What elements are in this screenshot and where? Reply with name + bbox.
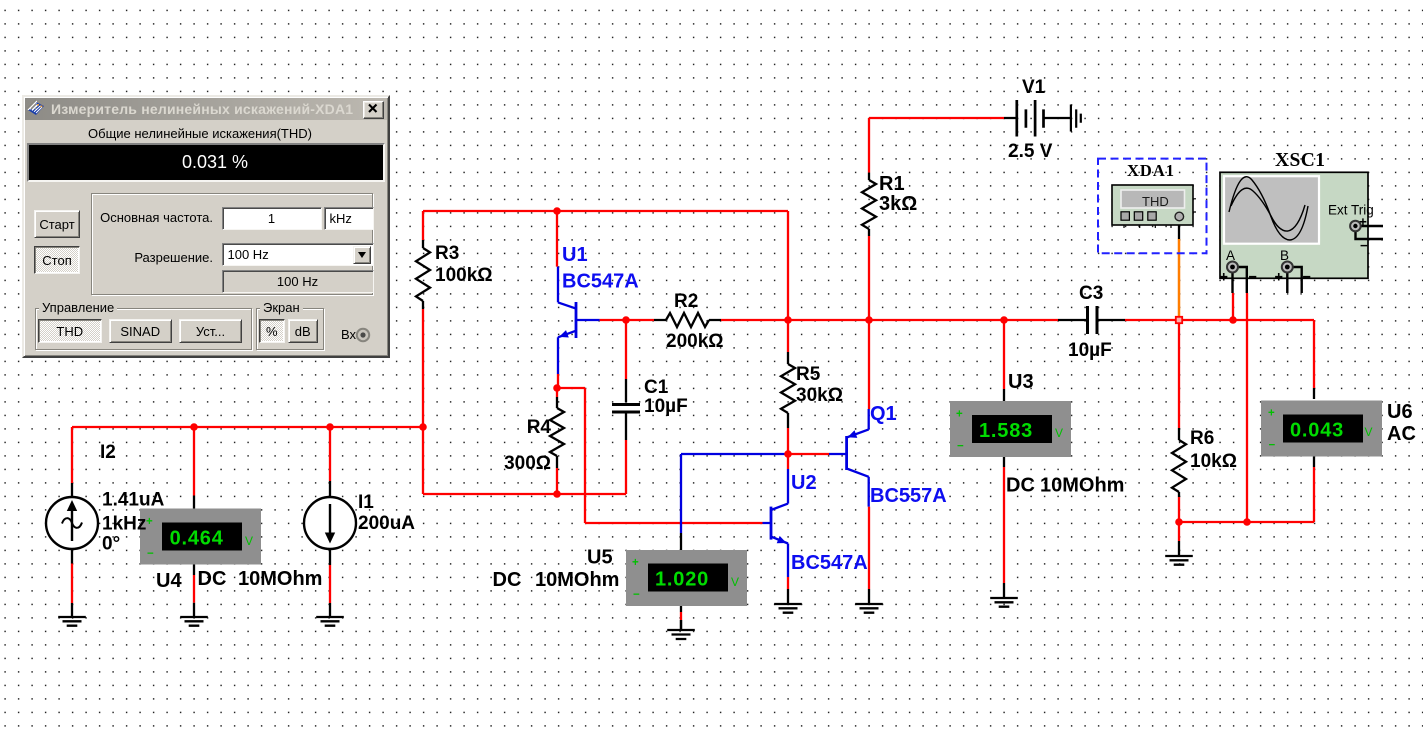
svg-text:30kΩ: 30kΩ xyxy=(796,385,843,406)
svg-text:U3: U3 xyxy=(1008,371,1034,393)
svg-text:10MOhm: 10MOhm xyxy=(238,568,322,590)
svg-text:−: − xyxy=(1303,270,1311,286)
svg-text:R5: R5 xyxy=(796,364,821,385)
svg-text:R4: R4 xyxy=(527,417,552,438)
svg-text:Q1: Q1 xyxy=(870,403,897,425)
svg-text:1.41uA: 1.41uA xyxy=(102,490,165,511)
svg-text:U4: U4 xyxy=(156,570,182,592)
svg-text:−: − xyxy=(1360,238,1368,253)
svg-text:DC: DC xyxy=(198,568,227,590)
svg-text:0.043: 0.043 xyxy=(1290,420,1344,442)
svg-text:−: − xyxy=(957,441,964,453)
svg-text:+: + xyxy=(1275,270,1283,286)
svg-text:R3: R3 xyxy=(435,243,459,264)
svg-text:V: V xyxy=(245,534,253,548)
svg-text:U5: U5 xyxy=(587,547,613,569)
svg-text:10MOhm: 10MOhm xyxy=(535,569,619,591)
svg-text:DC: DC xyxy=(493,569,522,591)
svg-text:1.583: 1.583 xyxy=(979,420,1033,442)
svg-text:C3: C3 xyxy=(1079,283,1103,304)
svg-text:C1: C1 xyxy=(644,377,669,398)
svg-text:I1: I1 xyxy=(358,492,374,513)
svg-text:200uA: 200uA xyxy=(358,513,415,534)
svg-text:V1: V1 xyxy=(1022,77,1046,98)
svg-text:BC557A: BC557A xyxy=(870,485,947,507)
svg-text:XDA1: XDA1 xyxy=(1127,161,1175,180)
svg-text:V: V xyxy=(1055,426,1063,440)
svg-text:200kΩ: 200kΩ xyxy=(666,331,724,352)
svg-text:0°: 0° xyxy=(102,534,120,555)
svg-text:R1: R1 xyxy=(879,173,905,195)
svg-text:DC: DC xyxy=(1006,475,1035,497)
svg-text:100kΩ: 100kΩ xyxy=(435,265,493,286)
svg-text:V: V xyxy=(1365,425,1373,439)
svg-text:2.5 V: 2.5 V xyxy=(1008,141,1053,162)
svg-text:300Ω: 300Ω xyxy=(504,453,551,474)
svg-text:U2: U2 xyxy=(791,472,817,494)
svg-text:+: + xyxy=(632,557,639,569)
svg-text:1kHz: 1kHz xyxy=(102,514,146,535)
svg-text:THD: THD xyxy=(1142,194,1169,209)
svg-text:U1: U1 xyxy=(562,244,588,266)
svg-text:+: + xyxy=(1220,270,1228,286)
svg-text:−: − xyxy=(1249,270,1257,286)
svg-text:XSC1: XSC1 xyxy=(1275,150,1325,171)
svg-text:10µF: 10µF xyxy=(1068,340,1112,361)
svg-text:3kΩ: 3kΩ xyxy=(879,193,917,215)
svg-text:1.020: 1.020 xyxy=(655,569,709,591)
svg-text:+: + xyxy=(956,409,963,421)
svg-text:−: − xyxy=(147,548,154,560)
svg-text:+: + xyxy=(146,516,153,528)
svg-text:I2: I2 xyxy=(100,442,116,463)
svg-text:V: V xyxy=(731,575,739,589)
svg-text:Ext Trig: Ext Trig xyxy=(1328,203,1374,218)
svg-text:BC547A: BC547A xyxy=(562,271,639,293)
svg-text:R2: R2 xyxy=(674,291,698,312)
svg-text:10µF: 10µF xyxy=(644,396,688,417)
svg-text:AC: AC xyxy=(1387,423,1416,445)
svg-text:10kΩ: 10kΩ xyxy=(1190,451,1237,472)
svg-text:U6: U6 xyxy=(1387,401,1413,423)
svg-text:R6: R6 xyxy=(1190,428,1214,449)
svg-text:10MOhm: 10MOhm xyxy=(1040,475,1124,497)
svg-text:+: + xyxy=(1268,408,1275,420)
svg-text:−: − xyxy=(633,589,640,601)
svg-text:BC547A: BC547A xyxy=(791,552,868,574)
svg-text:0.464: 0.464 xyxy=(170,528,224,550)
svg-text:−: − xyxy=(1269,440,1276,452)
